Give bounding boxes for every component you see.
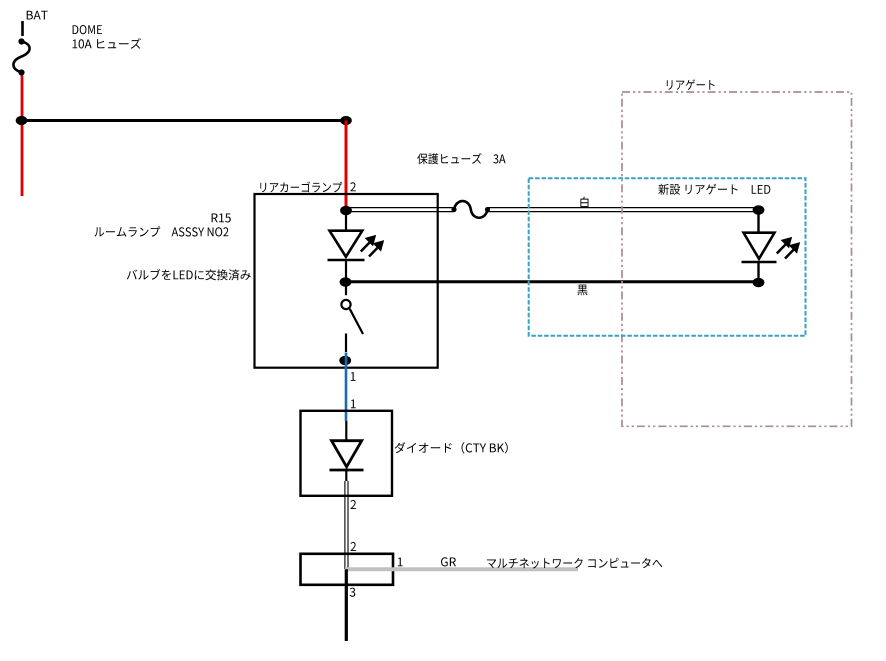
label multinetwork computer	[487, 558, 662, 569]
diode D2 cathode bar	[330, 469, 364, 472]
new rear gate LED enclosure (teal dashed box)	[529, 178, 806, 336]
LED D3 cathode bar	[742, 261, 777, 264]
wire black horizontal bus to lamp	[22, 119, 347, 122]
node junction new LED anode	[753, 205, 765, 214]
rear cargo lamp box R15	[255, 194, 438, 368]
wire white (double line) lamp to protect fuse	[346, 208, 454, 212]
wire gray GR to multinetwork computer	[345, 567, 578, 571]
label BAT	[27, 11, 48, 20]
label protect fuse 3A	[417, 153, 505, 164]
label white wire	[580, 197, 588, 208]
label room lamp assy	[94, 226, 228, 237]
node junction at lamp feed tap	[340, 116, 352, 125]
LED D3 new rear gate LED anode lead	[757, 210, 759, 232]
node junction lamp LED cathode / black wire tap	[340, 277, 352, 286]
node junction new LED cathode	[753, 278, 765, 287]
rear gate enclosure (pink dash-dot box)	[622, 92, 852, 426]
label rear gate	[667, 79, 715, 90]
LED D1 emission arrows	[361, 236, 384, 257]
pin 2 above conn box	[351, 542, 357, 551]
LED D3 emission arrows	[777, 238, 800, 259]
diode box CTY BK	[301, 411, 393, 496]
LED D1 triangle	[330, 231, 363, 257]
diode D2 triangle	[332, 441, 362, 467]
wire BAT lead (black vertical from BAT label)	[21, 21, 24, 36]
label bulb to LED	[127, 269, 251, 280]
LED D1 in cargo lamp (anode lead)	[345, 211, 347, 231]
fuse F2 protect 3A (S-curve with end dots)	[451, 201, 490, 218]
diode D2 anode lead	[345, 421, 347, 440]
label new reargate LED	[658, 184, 770, 195]
node junction lamp pin 2	[340, 206, 352, 215]
switch S1 in cargo lamp (pivot circle)	[341, 300, 350, 309]
label black wire	[577, 285, 587, 296]
wire black below connector pin 3	[345, 569, 348, 641]
wire red battery feed vertical	[21, 76, 24, 197]
LED D3 triangle	[744, 233, 775, 259]
wire red drop to rear cargo lamp pin 2	[345, 121, 348, 211]
node junction lamp pin 1	[339, 356, 351, 365]
wire white (double line) diode to connector	[345, 481, 348, 569]
label rear cargo lamp	[260, 182, 342, 193]
switch S1 blade	[350, 309, 363, 334]
wire black from lamp to new LED cathode	[346, 280, 759, 283]
switch S1 lower contact lead	[345, 334, 347, 353]
pin 1 of conn box	[398, 558, 403, 567]
LED D1 cathode lead	[345, 260, 347, 282]
label 10A fuse value	[73, 38, 142, 49]
LED D1 cathode bar	[328, 259, 365, 262]
label GR wire color	[441, 557, 456, 566]
pin 3 below conn box	[350, 588, 356, 597]
fuse F1 DOME 10A (S-curve with end dots)	[13, 38, 29, 75]
label diode CTY BK	[395, 442, 508, 454]
connector box to multinetwork computer	[301, 554, 394, 585]
pin 2 of lamp box	[350, 182, 356, 191]
wire blue lamp pin 1 to diode	[345, 353, 348, 422]
pin 2 below diode box	[351, 500, 357, 509]
LED D3 cathode lead	[757, 262, 759, 283]
wire white (double line) fuse to new LED	[488, 208, 759, 212]
pin 1 above diode box	[351, 400, 356, 409]
label R15	[212, 214, 231, 223]
node junction at battery feed tap	[16, 116, 28, 125]
pin 1 below lamp box	[351, 372, 356, 381]
switch S1 upper lead from junction	[345, 282, 347, 295]
diode D2 cathode lead	[345, 470, 347, 481]
label DOME	[73, 25, 102, 34]
